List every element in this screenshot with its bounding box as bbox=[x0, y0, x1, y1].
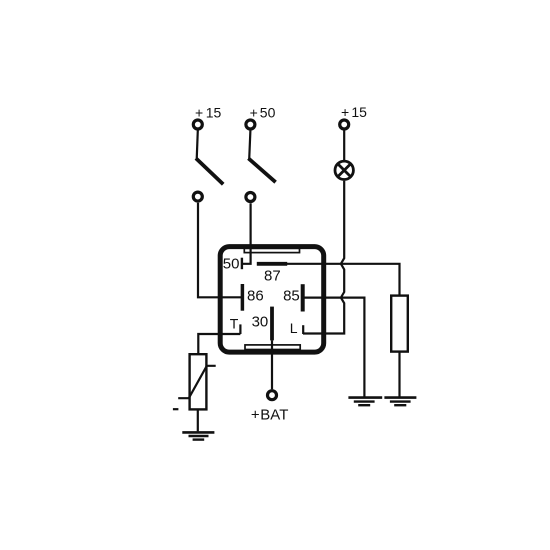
svg-text:+: + bbox=[251, 406, 260, 423]
svg-text:+: + bbox=[195, 104, 203, 120]
svg-text:T: T bbox=[230, 315, 239, 331]
svg-text:+: + bbox=[341, 104, 349, 120]
svg-text:85: 85 bbox=[283, 288, 300, 305]
svg-text:86: 86 bbox=[247, 288, 264, 305]
svg-text:L: L bbox=[290, 320, 298, 336]
svg-text:15: 15 bbox=[206, 104, 222, 120]
svg-text:50: 50 bbox=[223, 255, 240, 272]
svg-text:87: 87 bbox=[264, 267, 281, 284]
svg-text:30: 30 bbox=[252, 314, 269, 331]
svg-text:15: 15 bbox=[351, 104, 367, 120]
svg-text:+: + bbox=[250, 104, 258, 120]
svg-text:50: 50 bbox=[260, 104, 276, 120]
svg-text:BAT: BAT bbox=[260, 406, 288, 423]
